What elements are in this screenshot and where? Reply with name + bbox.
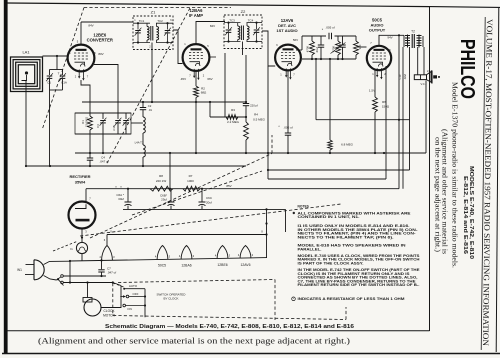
svg-text:12BA6: 12BA6 xyxy=(189,8,203,13)
svg-text:470K: 470K xyxy=(306,46,310,53)
schematic frame top xyxy=(7,3,430,7)
V2 cathode wire xyxy=(195,72,197,87)
svg-text:OFF: OFF xyxy=(133,292,139,296)
svg-text:NOTES: NOTES xyxy=(298,205,310,209)
pilot lamp I1 xyxy=(76,242,87,253)
wire V3 left pin down buses xyxy=(267,66,269,179)
dashed chassis diagonal D1a xyxy=(90,154,272,239)
notes text block xyxy=(293,205,421,302)
wire osc coupling xyxy=(131,122,143,124)
heater arch 50C5 xyxy=(157,246,168,260)
electrolytic C6A 30uf xyxy=(125,189,132,210)
wire V4 plate to T2 xyxy=(379,35,404,45)
heater arch 35W4 xyxy=(102,246,113,261)
Z2 secondary winding xyxy=(247,26,249,40)
wire grid network down to B bus xyxy=(329,59,331,140)
clock motor xyxy=(83,298,101,317)
svg-text:.005 uf: .005 uf xyxy=(283,125,292,129)
wire clock switch common xyxy=(144,289,146,318)
wire loop top to V1 grid xyxy=(43,55,68,57)
volume control 1 meg xyxy=(331,36,346,59)
svg-text:R7: R7 xyxy=(189,174,193,178)
resistor R1 22000 xyxy=(88,116,93,130)
svg-text:84V: 84V xyxy=(210,24,215,28)
wire V1 pin6 to oscillator gang xyxy=(94,65,118,114)
wire T2 secondary to speaker xyxy=(417,47,419,75)
svg-text:1.5V: 1.5V xyxy=(369,89,375,93)
dashed switch boundary near pilot xyxy=(53,241,78,251)
svg-text:20uf: 20uf xyxy=(206,201,212,205)
resistor R8 220 1W xyxy=(150,186,173,191)
trimmer small AA xyxy=(123,113,130,134)
svg-text:CLOCK: CLOCK xyxy=(104,309,116,313)
resistor R2 68 ohm xyxy=(194,86,199,98)
wire Z2 pin down to R3 line xyxy=(224,53,226,117)
oscillator line xyxy=(142,102,144,108)
wire detector output line down xyxy=(315,59,317,120)
resistor 6.8 MEG xyxy=(328,140,332,150)
svg-text:I1: I1 xyxy=(70,247,73,251)
bus B minus main xyxy=(123,208,286,210)
svg-text:84V: 84V xyxy=(88,24,93,28)
dashed clock unit bottom edge xyxy=(113,316,346,320)
Z1 internal top wires xyxy=(133,22,150,24)
svg-text:R3: R3 xyxy=(231,108,235,112)
svg-text:1ST AUDIO: 1ST AUDIO xyxy=(276,28,297,33)
wire speaker return down to bus 153 xyxy=(425,81,427,154)
svg-text:AUTO: AUTO xyxy=(129,284,138,288)
IF transformer Z1 dashed box xyxy=(133,16,173,50)
variable capacitor C3 xyxy=(100,113,107,134)
svg-text:CONTAINED IN 1 UNIT, N1.: CONTAINED IN 1 UNIT, N1. xyxy=(298,215,360,219)
Z2 core xyxy=(240,26,242,41)
frame top right portion xyxy=(430,6,500,9)
wire pilot to filament line xyxy=(81,254,83,261)
wire V4 grid feedback down xyxy=(385,66,387,179)
svg-text:470K: 470K xyxy=(332,46,336,53)
node plate junction to feedback xyxy=(398,34,400,36)
svg-text:Model E-1370 phono-radio is si: Model E-1370 phono-radio is similar to t… xyxy=(451,82,458,268)
rule left of volume text xyxy=(481,17,485,350)
svg-text:NECTS TO THE FILAMENT TAP,: NECTS TO THE FILAMENT TAP, (PIN 6). xyxy=(298,235,394,239)
resistor R6 150 ohm xyxy=(373,97,378,112)
trimmer TC4 xyxy=(253,23,260,42)
wire Z2 bottom pin down xyxy=(242,42,244,56)
resistor 180 grid xyxy=(354,36,359,59)
svg-text:56V: 56V xyxy=(293,38,298,42)
Z1 primary winding xyxy=(147,27,149,41)
svg-text:0.5 MEG: 0.5 MEG xyxy=(253,117,266,121)
svg-text:LS1: LS1 xyxy=(427,69,433,73)
wire R2 to AVC bus and ground bus xyxy=(195,98,197,154)
svg-text:68Ω: 68Ω xyxy=(201,91,207,95)
wire V5 plate down to pilot xyxy=(81,229,83,243)
svg-text:6.8 MEG: 6.8 MEG xyxy=(341,143,354,147)
svg-text:L4A T1: L4A T1 xyxy=(135,141,144,145)
heater arch 12BA6 xyxy=(181,246,192,260)
svg-text:12BA6: 12BA6 xyxy=(181,264,191,268)
tube V1 12BE6 converter xyxy=(68,45,95,81)
svg-text:94V: 94V xyxy=(387,35,392,39)
wire V3 plate stub xyxy=(301,36,303,50)
svg-text:TC3: TC3 xyxy=(229,19,235,23)
svg-text:TC4: TC4 xyxy=(248,19,254,23)
svg-text:C6C: C6C xyxy=(206,196,213,200)
wire R1 to bus 153 xyxy=(89,130,91,153)
svg-text:TC2: TC2 xyxy=(157,19,163,23)
heater arch 12AV6 xyxy=(240,246,251,259)
svg-text:30uf: 30uf xyxy=(118,197,124,201)
svg-text:66V: 66V xyxy=(207,77,212,81)
wire grid network bottom bus xyxy=(302,58,356,60)
wire Z2 secondary to V3 xyxy=(262,31,275,66)
loop antenna LA1 xyxy=(11,57,43,92)
dashed clock unit top diagonal D2 xyxy=(80,204,341,236)
svg-text:IF AMP: IF AMP xyxy=(189,13,203,18)
dashed middle diagonal boundary xyxy=(106,8,190,165)
page right edge line xyxy=(496,7,499,352)
wire V2 plate up to Z2 xyxy=(196,22,225,44)
oscillator coil T1 winding upper xyxy=(143,117,145,133)
svg-text:C1B: C1B xyxy=(112,125,116,130)
Z2 internal bottom wires xyxy=(224,41,241,43)
dashed chassis diagonal D1b xyxy=(132,171,262,215)
Z2 junction dots xyxy=(227,22,229,24)
filament line xyxy=(70,258,267,261)
wire motor feed xyxy=(87,283,89,298)
svg-text:ON: ON xyxy=(127,307,132,311)
svg-text:on the next page adjacent at r: on the next page adjacent at right.) xyxy=(434,137,442,253)
wire plate rail to Z1 xyxy=(81,21,133,23)
wire C1 lead down xyxy=(49,90,51,166)
svg-text:FILAMENT RETURN SIDE OF THE SW: FILAMENT RETURN SIDE OF THE SWITCH INSTE… xyxy=(298,283,420,287)
bus B minus RF ground xyxy=(26,165,246,167)
dashed filament return line xyxy=(118,280,275,283)
node grid junction xyxy=(56,55,58,57)
wire Z1 bottom pin down to AVC bus xyxy=(151,43,153,103)
wire T2 primary down to bus 170 xyxy=(409,47,411,170)
svg-text:Z1: Z1 xyxy=(151,9,156,14)
tube V5 35W4 rectifier xyxy=(69,202,96,229)
svg-text:85V: 85V xyxy=(226,184,231,188)
svg-text:RECTIFIER: RECTIFIER xyxy=(69,174,90,179)
dashed clock unit right edge short upturn xyxy=(345,307,347,320)
Z2 primary winding xyxy=(238,26,240,40)
wire feedback plate line down to B+ bus xyxy=(398,35,400,188)
resistor 470K diode load xyxy=(310,36,315,59)
capacitor C10 line down xyxy=(402,47,404,189)
bus 179 feedback xyxy=(268,178,386,180)
svg-text:1000: 1000 xyxy=(187,179,194,183)
V2 right pin stub xyxy=(210,56,217,58)
capacitor C2 .01 xyxy=(140,107,146,109)
bus R3 line xyxy=(210,116,246,118)
dashed tuner unit top boundary xyxy=(84,7,231,9)
wire B minus end down xyxy=(285,209,287,232)
svg-text:.01: .01 xyxy=(148,108,152,112)
wire grid to trimmer bar xyxy=(56,56,58,70)
electrolytic C6B 25uf xyxy=(168,189,175,210)
wire T1 to bus 153 xyxy=(142,157,144,166)
trimmer TC3 xyxy=(225,23,232,42)
tuning gang box xyxy=(75,113,131,134)
V4 cathode wire xyxy=(374,70,376,97)
wire B minus to filament return xyxy=(266,209,268,257)
pin 6 stub on 35W4 heater xyxy=(106,235,108,246)
tube V2 12BA6 IF amp xyxy=(183,44,210,80)
svg-text:R1: R1 xyxy=(81,120,85,124)
wire 180 to V4 grid xyxy=(356,46,367,48)
capacitor C5 220pf xyxy=(243,55,249,122)
svg-text:R4: R4 xyxy=(254,113,258,117)
clock switch OFF xyxy=(126,295,129,298)
power plug W1 xyxy=(25,260,70,280)
trimmer TC1 xyxy=(135,23,142,42)
svg-text:Z2: Z2 xyxy=(241,9,246,14)
schematic frame right xyxy=(429,7,431,331)
junction dots on RF ground bus xyxy=(25,165,27,167)
svg-text:MODELS E-740, E-742, E-810: MODELS E-740, E-742, E-810 xyxy=(468,166,474,259)
Z2 internal top wires xyxy=(224,22,241,24)
dashed chassis diagonal D1a vertical end xyxy=(271,135,273,154)
wire gang top bus xyxy=(75,112,131,114)
wire switch lower line xyxy=(63,282,113,284)
svg-text:T2: T2 xyxy=(411,30,415,34)
svg-text:E-812, E-814 and E-816: E-812, E-814 and E-816 xyxy=(462,176,468,254)
V3 cathode wire down with cap xyxy=(287,71,289,133)
svg-text:220 pf: 220 pf xyxy=(250,104,258,108)
svg-text:12BE6: 12BE6 xyxy=(217,263,227,267)
svg-text:80V: 80V xyxy=(98,52,103,56)
svg-text:C1: C1 xyxy=(47,81,51,85)
wire gang bottom bus xyxy=(75,133,131,135)
heater arch 12BE6 xyxy=(217,246,228,259)
svg-text:2.2 MEG: 2.2 MEG xyxy=(227,120,240,124)
wire loop lead down xyxy=(25,81,27,167)
capacitor .005 uf coupling (asterisk) xyxy=(328,33,330,39)
wire V3 plate rail xyxy=(302,35,326,37)
Z1 internal bottom wires xyxy=(133,42,150,44)
wire C2 to coil xyxy=(142,110,144,117)
bus 170 output return xyxy=(268,169,410,171)
svg-text:INDICATES A RESISTANCE OF LESS: INDICATES A RESISTANCE OF LESS THAN 1 OH… xyxy=(298,297,405,301)
svg-text:.45V: .45V xyxy=(180,77,186,81)
capacitor C7 .047uf xyxy=(98,261,104,276)
svg-text:220 1W: 220 1W xyxy=(156,179,167,183)
trimmer C1A xyxy=(50,70,66,91)
oscillator coil T1 winding lower xyxy=(143,145,145,157)
svg-text:35W4: 35W4 xyxy=(75,180,86,185)
svg-text:.01uf: .01uf xyxy=(315,47,319,53)
IF transformer Z2 dashed box xyxy=(224,15,262,49)
on-off switch contacts xyxy=(57,275,64,286)
trimmer C1 xyxy=(46,70,53,91)
svg-text:50C5: 50C5 xyxy=(158,264,166,268)
bus main 153 xyxy=(75,152,426,154)
Z1 core xyxy=(150,26,152,41)
svg-text:TC1: TC1 xyxy=(139,19,145,23)
resistor R4 0.5 MEG xyxy=(244,122,249,140)
svg-text:12AV6: 12AV6 xyxy=(241,263,251,267)
node X point xyxy=(265,233,267,235)
resistor R3 2.2 MEG xyxy=(226,115,238,120)
svg-text:BY CLOCK: BY CLOCK xyxy=(163,297,178,301)
svg-text:25uf: 25uf xyxy=(161,198,167,202)
wire V1 plate up xyxy=(80,22,82,44)
wire R4 to bus xyxy=(245,140,247,153)
dashed filament return right vertical xyxy=(274,280,276,321)
clock switch ON xyxy=(123,304,126,307)
wire V5 cathode up to B+ bus xyxy=(85,189,87,202)
wire clock return line xyxy=(107,234,267,236)
clock switch AUTO xyxy=(123,288,125,290)
dashed clock unit left edge xyxy=(112,283,114,316)
wire filament left end down xyxy=(69,261,71,283)
svg-text:PHILCO: PHILCO xyxy=(456,39,478,99)
tube V4 50C5 audio output xyxy=(367,46,391,80)
page bottom border xyxy=(2,353,500,355)
wire gang to bus 153 xyxy=(102,134,104,153)
circled asterisk symbol xyxy=(292,297,296,301)
svg-text:OUTPUT: OUTPUT xyxy=(369,28,386,33)
output transformer T2 xyxy=(404,34,423,48)
svg-text:W1: W1 xyxy=(17,268,22,272)
wire R6 to bus xyxy=(374,112,376,153)
capacitor C9 .01uf xyxy=(339,36,345,59)
Z1 junction dots xyxy=(137,22,139,24)
svg-text:.047 uf: .047 uf xyxy=(107,271,116,275)
variable capacitor C1B xyxy=(115,113,122,134)
wire R8 R7 junction up to bus 153 xyxy=(169,153,171,189)
tube V3 12AV6 det avc 1st audio xyxy=(275,45,301,80)
bus AVC line xyxy=(82,101,246,103)
svg-text:22,000Ω: 22,000Ω xyxy=(85,117,89,127)
svg-text:PARALLEL.: PARALLEL. xyxy=(298,247,322,251)
wire motor right lead xyxy=(101,286,121,308)
bus B+ 85V xyxy=(86,188,399,190)
capacitor C8 .01uf xyxy=(318,36,324,59)
wire switch to C7 line xyxy=(63,275,106,277)
capacitor C4 .047uf xyxy=(87,153,93,166)
svg-text:T: T xyxy=(58,72,60,76)
schematic frame bottom xyxy=(7,330,430,332)
wire Z1 secondary to V2 grid xyxy=(173,30,183,64)
svg-text:IS PART OF THE CLOCK ASSY.: IS PART OF THE CLOCK ASSY. xyxy=(298,261,364,265)
wire detector line to output stage xyxy=(316,119,410,121)
svg-text:12BE6: 12BE6 xyxy=(93,32,106,37)
svg-text:.047 uf: .047 uf xyxy=(99,160,108,164)
svg-text:Schematic Diagram — Models E-7: Schematic Diagram — Models E-740, E-742,… xyxy=(105,324,354,330)
svg-text:CONVERTER: CONVERTER xyxy=(87,38,113,43)
svg-text:C3: C3 xyxy=(96,124,100,128)
speaker LS1 voice coil and cone xyxy=(414,71,440,84)
svg-text:C1A: C1A xyxy=(61,81,67,85)
svg-text:MOTOR: MOTOR xyxy=(103,314,116,318)
Z1 secondary winding xyxy=(157,27,159,41)
dashed link to AUTO contact xyxy=(113,283,125,288)
dashed tuner unit left diagonal xyxy=(42,8,84,131)
svg-text:(Alignment and other service m: (Alignment and other service material is… xyxy=(38,336,350,346)
wire coupling cap to grid network xyxy=(335,35,357,37)
svg-text:.005 uf: .005 uf xyxy=(325,26,334,30)
left black margin bar xyxy=(4,0,8,354)
electrolytic C6C 20uf xyxy=(199,189,206,210)
trimmer TC2 xyxy=(164,23,171,42)
svg-text:V.C.: V.C. xyxy=(421,82,426,86)
capacitor .005 uf below V3 xyxy=(285,132,291,134)
resistor R7 1000 xyxy=(183,186,200,191)
svg-text:LA1: LA1 xyxy=(22,50,30,55)
wire V1 cathode to R1 xyxy=(81,80,90,116)
svg-text:R8: R8 xyxy=(159,174,163,178)
